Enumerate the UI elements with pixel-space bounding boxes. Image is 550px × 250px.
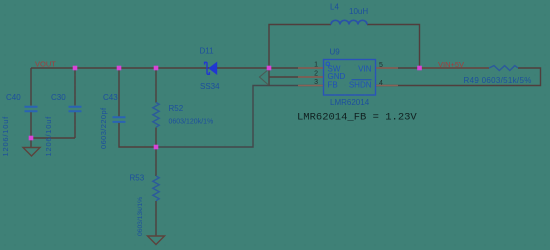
svg-text:SHDN: SHDN: [349, 81, 372, 90]
svg-text:U9: U9: [330, 48, 341, 57]
svg-text:R49 0603/51k/5%: R49 0603/51k/5%: [464, 76, 532, 85]
wire R49 right loop: [376, 68, 541, 86]
svg-text:1: 1: [314, 62, 318, 69]
svg-text:3: 3: [314, 79, 318, 86]
resistor R53: [130, 174, 160, 237]
ground at R53: [148, 236, 165, 245]
svg-text:0603/13k/1%: 0603/13k/1%: [137, 197, 144, 236]
pin 4 highlight: [376, 85, 399, 87]
svg-text:C40: C40: [6, 93, 21, 102]
capacitor C40: [1, 93, 38, 157]
svg-text:VOUT: VOUT: [35, 59, 56, 68]
svg-text:R53: R53: [130, 174, 145, 183]
wire FB net: [156, 86, 324, 148]
resistor R52: [153, 103, 213, 128]
pin 5 highlight: [376, 67, 399, 69]
resistor R49: [464, 66, 532, 85]
wire VOUT rail: [31, 67, 269, 69]
wire R53 bottom: [155, 201, 157, 236]
svg-text:L4: L4: [330, 3, 339, 12]
svg-text:4: 4: [379, 80, 383, 87]
node junction SW: [267, 66, 272, 71]
svg-text:1206/10uf: 1206/10uf: [1, 116, 10, 157]
wire diagonals at SW node: [260, 69, 270, 85]
diode D11 SS34: [200, 47, 221, 92]
node junction C30/rail: [73, 66, 78, 71]
wire pin2 GND stub: [269, 76, 324, 78]
IC U9 LMR62014: [324, 48, 376, 108]
svg-text:VIN: VIN: [358, 65, 372, 74]
svg-text:VIN+5V: VIN+5V: [438, 60, 464, 69]
svg-text:R52: R52: [169, 104, 184, 113]
node junction VIN: [417, 66, 422, 71]
ground at C40: [23, 138, 40, 156]
svg-text:10uH: 10uH: [349, 7, 368, 16]
pin 3 highlight: [298, 85, 324, 87]
node junction R52/rail: [154, 66, 159, 71]
svg-text:0603/220pf: 0603/220pf: [99, 107, 108, 149]
wire R52 top: [155, 68, 157, 103]
node junction FB divider: [154, 145, 159, 150]
wire SW loop left: [269, 25, 331, 86]
svg-text:2: 2: [314, 71, 318, 78]
wire R52 bottom: [155, 128, 157, 148]
svg-text:FB: FB: [328, 81, 338, 90]
wire pin1 SW stub: [269, 67, 324, 69]
capacitor C30: [44, 93, 82, 157]
svg-text:D11: D11: [200, 47, 215, 56]
svg-text:LMR62014_FB = 1.23V: LMR62014_FB = 1.23V: [297, 112, 417, 124]
inductor L4: [330, 3, 368, 25]
wire C40 to C30 bottom: [31, 137, 75, 139]
svg-text:0603/120k/1%: 0603/120k/1%: [169, 119, 214, 126]
svg-text:5: 5: [379, 62, 383, 69]
wire SW loop right: [367, 25, 420, 69]
node junction C43/rail: [117, 66, 122, 71]
svg-text:LMR62014: LMR62014: [330, 98, 370, 107]
wire R53 top: [155, 147, 157, 176]
wire C43 branch: [119, 68, 156, 147]
capacitor C43: [99, 93, 126, 149]
pin 2 highlight: [298, 76, 324, 78]
wire C30 branch: [74, 68, 76, 138]
wire C40 branch: [30, 68, 32, 138]
svg-text:C43: C43: [103, 93, 118, 102]
svg-text:C30: C30: [51, 93, 66, 102]
wire pin5 VIN: [376, 67, 420, 69]
wire VIN to R49: [420, 67, 490, 69]
pin 1 highlight: [298, 67, 324, 69]
node junction C40 ground: [29, 136, 34, 141]
svg-text:1206/10uf: 1206/10uf: [44, 116, 53, 157]
svg-text:SS34: SS34: [200, 82, 220, 91]
